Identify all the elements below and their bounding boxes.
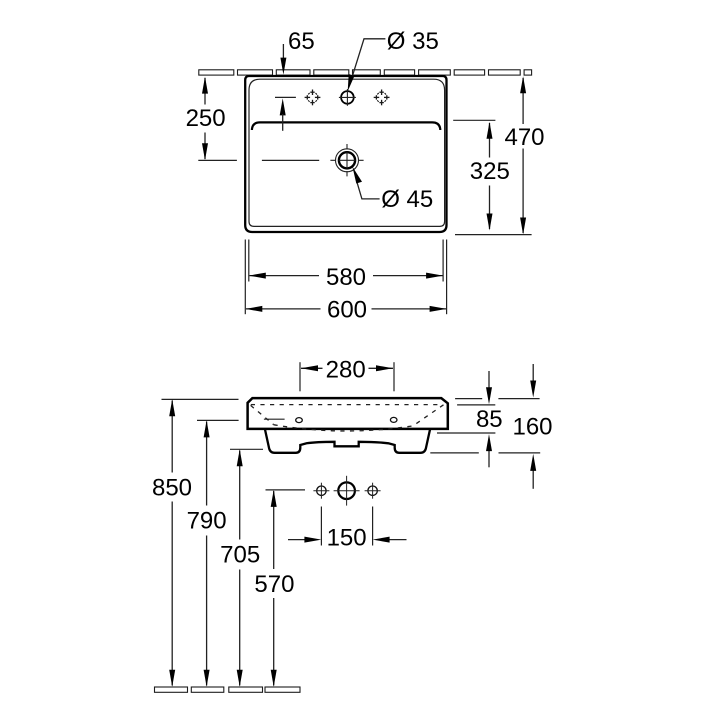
wall hatch bar (top view)	[199, 70, 532, 75]
hidden basin rim (dashed)	[251, 404, 442, 406]
dimension 250	[186, 77, 226, 161]
svg-text:850: 850	[152, 475, 192, 502]
svg-text:705: 705	[220, 542, 260, 569]
drain hole Ø45	[330, 144, 363, 176]
dimension 600	[245, 240, 446, 324]
svg-text:280: 280	[326, 357, 366, 384]
basin inner rim (top view)	[249, 79, 445, 226]
svg-text:85: 85	[476, 406, 503, 433]
floor hatch bar	[155, 687, 301, 692]
left fixing hole (front)	[296, 418, 303, 423]
dimension 790	[187, 420, 239, 686]
left optional faucet hole mark	[305, 90, 321, 106]
dimension 325	[453, 120, 510, 230]
svg-text:250: 250	[186, 105, 226, 132]
dimension 150	[288, 507, 407, 552]
dimension 65	[275, 28, 315, 131]
fixing-hole extension line (inside body)	[264, 418, 285, 420]
basin outer rim (top view)	[245, 76, 446, 232]
faucet hole Ø35	[339, 89, 356, 106]
svg-text:470: 470	[504, 124, 544, 151]
svg-text:580: 580	[326, 264, 366, 291]
hidden bowl bottom (dashed)	[274, 425, 413, 431]
basin body (front view)	[248, 398, 448, 429]
drain centerline	[198, 159, 319, 161]
dimension 850	[152, 399, 239, 687]
dimension 160	[430, 364, 552, 489]
svg-text:600: 600	[327, 297, 367, 324]
dimension 280	[300, 357, 394, 392]
label Ø35 with leader	[348, 28, 439, 91]
pedestal / underside (front view)	[265, 430, 430, 453]
svg-text:Ø 45: Ø 45	[381, 186, 433, 213]
hidden basin left wall (dashed)	[251, 405, 274, 424]
svg-text:160: 160	[512, 414, 552, 441]
svg-text:65: 65	[288, 28, 315, 55]
dimension 85	[437, 371, 503, 467]
basin back ledge line	[252, 122, 440, 130]
dimension 580	[249, 240, 443, 292]
dimension 570	[254, 490, 305, 687]
right optional faucet hole mark	[374, 90, 390, 106]
svg-text:150: 150	[327, 525, 367, 552]
svg-text:325: 325	[470, 158, 510, 185]
svg-text:570: 570	[254, 571, 294, 598]
svg-text:Ø 35: Ø 35	[387, 28, 439, 55]
dimension 470	[455, 76, 545, 234]
label Ø45 with leader	[352, 167, 433, 213]
right fixing hole (front)	[390, 417, 397, 422]
hidden basin right wall (dashed)	[413, 405, 444, 426]
svg-text:790: 790	[187, 508, 227, 535]
dimension 705	[220, 449, 263, 687]
wall drain holes (front view)	[313, 476, 380, 506]
